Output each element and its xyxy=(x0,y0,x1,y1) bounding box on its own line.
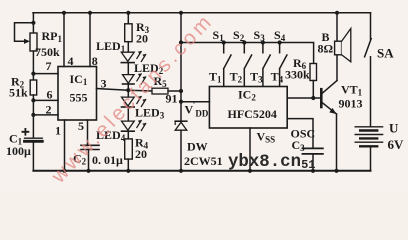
svg-text:8: 8 xyxy=(92,54,98,68)
svg-text:3: 3 xyxy=(101,77,107,91)
svg-text:51k: 51k xyxy=(9,86,28,100)
svg-text:20: 20 xyxy=(135,147,147,161)
svg-text:91: 91 xyxy=(166,92,178,106)
svg-text:5: 5 xyxy=(78,119,84,133)
svg-text:2CW51: 2CW51 xyxy=(184,154,223,168)
svg-text:U: U xyxy=(389,121,399,136)
svg-text:2: 2 xyxy=(46,103,52,117)
svg-text:750k: 750k xyxy=(35,45,60,59)
svg-text:HFC5204: HFC5204 xyxy=(228,107,277,121)
svg-text:SA: SA xyxy=(377,46,394,61)
svg-text:100μ: 100μ xyxy=(6,144,31,158)
svg-text:4: 4 xyxy=(68,54,74,68)
svg-text:6V: 6V xyxy=(388,137,405,152)
svg-text:555: 555 xyxy=(70,91,88,105)
svg-text:1: 1 xyxy=(55,124,61,138)
svg-text:8Ω: 8Ω xyxy=(318,42,334,56)
svg-text:6: 6 xyxy=(47,88,53,102)
svg-text:7: 7 xyxy=(46,59,52,73)
svg-text:330k: 330k xyxy=(285,68,310,82)
svg-text:20: 20 xyxy=(136,32,148,46)
svg-text:0. 01μ: 0. 01μ xyxy=(92,153,123,167)
svg-text:DW: DW xyxy=(187,140,208,154)
svg-text:9013: 9013 xyxy=(339,97,363,111)
